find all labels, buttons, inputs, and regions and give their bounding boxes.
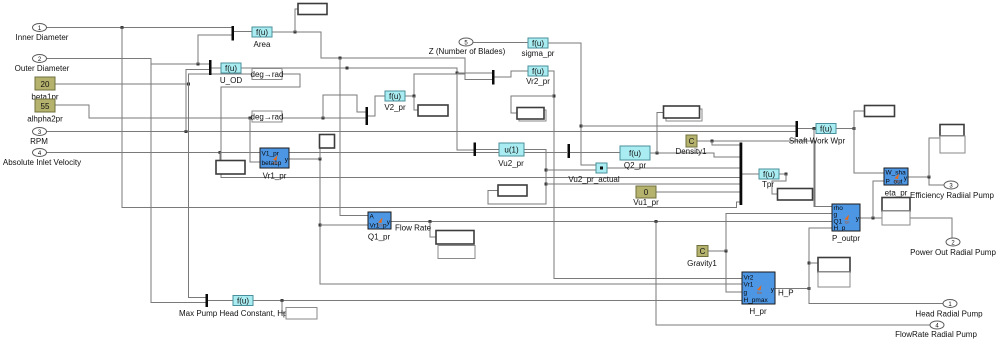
mux Vr2_pr inputs — [492, 70, 495, 85]
constant alhpha2pr 55 — [35, 99, 55, 112]
node: Vr1 junction to Q1 input — [319, 224, 322, 227]
wire: V2 mux output into V2_pr — [368, 96, 385, 116]
wire: Mux2 output into U_OD — [212, 67, 222, 69]
wire: Vu1_pr constant 0 output to Tpr mux — [656, 191, 740, 193]
svg-text:g: g — [744, 290, 748, 297]
svg-text:Vr2_pr: Vr2_pr — [526, 77, 550, 86]
svg-text:sigma_pr: sigma_pr — [522, 49, 555, 58]
constant Vu1_pr 0 — [636, 186, 656, 198]
display eta right top shadow — [940, 136, 965, 153]
display eta right top — [940, 125, 964, 137]
svg-text:f(u): f(u) — [820, 125, 832, 134]
mux V2_pr inputs — [366, 107, 369, 125]
wire: shaft display feed — [854, 111, 864, 129]
display Vr2_pr — [519, 110, 546, 121]
svg-text:f(u): f(u) — [389, 92, 401, 101]
svg-text:fcn: fcn — [845, 221, 850, 225]
inport 3 RPM — [33, 128, 47, 136]
svg-text:Gravity1: Gravity1 — [687, 259, 717, 268]
display eta below shadow — [882, 211, 910, 225]
fcn block Q2_pr — [620, 146, 650, 160]
mux Tpr inputs — [740, 143, 743, 206]
wire: gravity branch up to P_outpr g input — [726, 214, 832, 252]
wire: alhpha2pr constant 55 output into deg2rad2 — [55, 105, 366, 118]
fcn block u1 Vu2_pr — [499, 143, 524, 156]
node: Vu2 junction to product — [545, 169, 548, 172]
node: alpha rad junction at x250 — [249, 117, 252, 120]
svg-text:Vr1_pr: Vr1_pr — [263, 172, 287, 181]
svg-text:H_pr: H_pr — [749, 307, 767, 316]
constant Gravity1 C — [697, 246, 708, 257]
svg-text:fcn: fcn — [895, 180, 900, 184]
wire: Density branch into Tpr mux top — [712, 141, 740, 145]
svg-text:Inner Diameter: Inner Diameter — [16, 33, 69, 42]
wire: Shaft Work output — [836, 128, 854, 130]
wire: H_P branch up to P_outpr H_p input — [809, 228, 832, 289]
inport 2 Outer Diameter — [33, 55, 47, 63]
svg-text:RPM: RPM — [30, 137, 48, 146]
wire: Vr2 display feed loop — [511, 96, 554, 113]
wire: head display feed — [809, 262, 818, 264]
outport 4 FlowRate Radial Pump — [930, 321, 944, 329]
node: V2_pr output junction — [413, 95, 416, 98]
subsystem Vr1_pr — [260, 148, 289, 168]
svg-text:fcn: fcn — [757, 291, 762, 295]
node: Area display junction — [294, 31, 297, 34]
wire: Vr1 branch to Q1_pr Vr1 input — [320, 224, 368, 226]
svg-text:u(1): u(1) — [504, 146, 519, 155]
svg-text:U_OD: U_OD — [220, 76, 242, 85]
wire: Max Pump mux output into f(u) — [208, 300, 233, 302]
fcn block Vr2_pr — [528, 66, 548, 76]
wire: U_OD output line to Vr2 mux and Vu2 mux trunk — [241, 68, 474, 150]
mux Q2_pr inputs — [568, 144, 571, 158]
subsystem H_pr — [742, 272, 775, 304]
fcn block Max Pump Head Constant — [233, 296, 253, 306]
wire: u1 Vu2_pr output trunk — [488, 150, 546, 205]
wire: V1 display tap — [216, 153, 220, 168]
constant beta1pr 20 — [35, 77, 55, 90]
display Shaft Work — [865, 106, 895, 117]
svg-text:Vu2_pr: Vu2_pr — [498, 159, 524, 168]
wire: eta_pr output — [908, 177, 944, 185]
svg-text:Vr1: Vr1 — [744, 282, 754, 289]
display head shadow — [818, 272, 850, 287]
wire: Shaft mux output into Shaft Work f(u) — [798, 128, 816, 130]
svg-text:0: 0 — [644, 188, 649, 197]
fcn block Shaft Work Wpr — [816, 124, 836, 134]
svg-text:Q1_pr: Q1_pr — [368, 233, 391, 242]
svg-text:f(u): f(u) — [237, 297, 249, 306]
node: P_out junction to eta — [872, 217, 875, 220]
wire: Inner Diameter line to Mux1 — [47, 27, 232, 29]
svg-text:deg→rad: deg→rad — [251, 70, 284, 79]
node: Vr2 display junction — [553, 95, 556, 98]
display eta below — [882, 198, 910, 212]
svg-text:Power Out Radial Pump: Power Out Radial Pump — [910, 248, 996, 257]
svg-text:H_pmax: H_pmax — [744, 297, 769, 304]
display head — [818, 258, 850, 273]
wire: outer diameter branch up to Mux1 lower input — [198, 35, 232, 64]
product block Vu2_pr_actual — [596, 163, 607, 173]
svg-text:Head Radial Pump: Head Radial Pump — [915, 310, 983, 319]
node: Vu2 junction to Tpr mux — [545, 183, 548, 186]
wire: H_P branch down to Head outport — [809, 289, 943, 304]
svg-text:H_P: H_P — [778, 289, 794, 298]
svg-text:Z (Number of Blades): Z (Number of Blades) — [429, 47, 506, 56]
fcn block Area — [252, 27, 272, 37]
display Tpr — [778, 189, 813, 201]
mux Max Pump inputs — [206, 294, 209, 307]
wire: Q1 display feed — [430, 222, 436, 238]
node: deg2rad2 junction at x323 — [322, 117, 325, 120]
wire: sigma branch to Shaft mux top input — [581, 125, 796, 127]
svg-text:Vu1_pr: Vu1_pr — [633, 198, 659, 207]
svg-text:Area: Area — [254, 40, 271, 49]
wire: inner diameter trunk down to bus — [122, 28, 740, 208]
svg-text:f(u): f(u) — [225, 64, 237, 73]
display small above Vr1_pr output — [320, 135, 335, 149]
svg-text:Vr2: Vr2 — [744, 275, 754, 282]
gain deg2rad 1 — [252, 69, 282, 80]
fcn block U_OD — [221, 63, 241, 73]
outport 1 Head Radial Pump — [943, 300, 957, 308]
wire: H_pr output H_P — [774, 288, 809, 290]
node: Q1 flowrate junction — [655, 220, 658, 223]
wire: Tpr display feed — [772, 174, 786, 194]
wire: Gravity1 output trunk — [707, 251, 742, 292]
svg-text:FlowRate Radial Pump: FlowRate Radial Pump — [895, 330, 977, 339]
svg-text:g: g — [834, 212, 838, 219]
svg-text:alhpha2pr: alhpha2pr — [27, 115, 63, 124]
wire: beta trunk down to Max Pump mux upper input — [189, 84, 206, 298]
wire: Vr2 mux output into Vr2_pr — [495, 71, 529, 77]
svg-text:Shaft Work Wpr: Shaft Work Wpr — [789, 137, 846, 146]
wire: RPM line to Shaft mux — [47, 131, 796, 133]
display beta small left of Vr1_pr — [216, 161, 245, 175]
outport 2 Power Out Radial Pump — [946, 238, 960, 246]
node: gravity junction — [725, 250, 728, 253]
wire: deg2rad1 output return loop to long beta rad line — [221, 74, 740, 178]
wire: Q2 display feed — [657, 113, 663, 154]
fcn block Tpr — [759, 169, 779, 179]
svg-text:f(u): f(u) — [532, 39, 544, 48]
wire: Q1 branch down to FlowRate outport 4 — [656, 222, 930, 326]
wire: Mux1 output into Area — [234, 31, 252, 33]
wire: Vr1 small display stub — [319, 148, 321, 159]
svg-text:V2_pr: V2_pr — [384, 103, 406, 112]
node: Vr1 output junction to small display — [319, 158, 322, 161]
display Vu2_pr — [498, 185, 527, 196]
mux Shaft Work inputs — [796, 121, 799, 137]
mux Vu2_pr inputs — [474, 143, 477, 157]
outport 3 Efficiency Radial Pump — [944, 181, 958, 189]
constant Density1 C — [686, 135, 697, 147]
wire: Vu2 branch to product lower input — [546, 169, 596, 171]
wire: Vr2_pr output trunk down to H_pr Vr2 input — [548, 71, 742, 279]
node: shaft line junction to rho — [813, 127, 816, 130]
wire: sigma_pr output trunk — [548, 43, 596, 165]
wire: RPM branch up to U_OD mux lower input — [186, 70, 209, 132]
wire: branch up and over to V2 mux top input — [323, 95, 366, 118]
subsystem P_outpr — [832, 204, 860, 231]
wire: Density1 output — [697, 141, 832, 207]
display V2_pr — [418, 105, 448, 116]
svg-text:A: A — [370, 214, 375, 221]
wire: P_outpr output — [860, 218, 952, 242]
wire: Vu2 mux output into u1 — [476, 149, 500, 151]
wire: shaft branch down to eta W_sha input — [854, 129, 884, 174]
svg-text:H_p: H_p — [834, 225, 846, 232]
mux Area inputs — [232, 26, 235, 41]
node: Density junction — [711, 140, 714, 143]
node: shaft output junction — [853, 127, 856, 130]
inport 1 Inner Diameter — [33, 24, 47, 32]
node: Area line junction for Q1 A input — [339, 57, 342, 60]
node: U_OD junction for Vr2 mux — [456, 72, 459, 75]
wire: product output to Tpr mux — [607, 167, 740, 169]
subsystem eta_pr — [884, 168, 908, 185]
wire: outer diameter trunk down to Max Pump mux — [151, 59, 206, 303]
svg-text:beta1p: beta1p — [262, 160, 282, 167]
wire: V2 display feed — [414, 96, 418, 110]
wire: branch down to P_outpr rho input — [814, 129, 832, 207]
display Area top — [298, 4, 327, 15]
node: Q2 display junction — [656, 152, 659, 155]
display Q1 Flow Rate — [436, 231, 474, 245]
svg-text:deg→rad: deg→rad — [251, 113, 284, 122]
wire: Vr1_pr output trunk — [289, 159, 742, 284]
fcn block V2_pr — [385, 91, 405, 101]
svg-text:Tpr: Tpr — [762, 180, 774, 189]
inport 4 Absolute Inlet Velocity — [33, 149, 47, 157]
svg-text:P_outpr: P_outpr — [832, 234, 860, 243]
svg-text:f(u): f(u) — [629, 149, 641, 158]
display Q1 shadow lower — [438, 246, 475, 259]
wire: H_pmax display feed — [282, 301, 286, 314]
node: H_pmax display junction — [281, 299, 284, 302]
node: head display junction — [808, 262, 811, 265]
subsystem Q1_pr Flow Rate — [368, 212, 391, 229]
mux U_OD inputs — [209, 60, 212, 75]
svg-text:Q2_pr: Q2_pr — [624, 161, 647, 170]
wire: Q2 mux output into Q2_pr — [570, 152, 620, 154]
svg-text:Efficiency Radiial Pump: Efficiency Radiial Pump — [910, 191, 994, 200]
wire: Z port5 line into sigma_pr — [473, 42, 528, 44]
node: V1 junction at display tap — [219, 151, 222, 154]
svg-text:f(u): f(u) — [532, 67, 544, 76]
svg-text:fcn: fcn — [378, 224, 383, 228]
wire: beta branch up into deg2rad1 — [189, 74, 253, 84]
fcn block sigma_pr — [528, 38, 548, 48]
wire: alpha rad branch down to Vr1_pr beta1p input — [250, 118, 260, 162]
wire: Tpr mux output into Tpr — [742, 173, 759, 175]
svg-text:Vu2_pr_actual: Vu2_pr_actual — [568, 175, 620, 184]
wire: Tpr output — [779, 173, 786, 175]
svg-text:Flow Rate: Flow Rate — [395, 224, 432, 233]
svg-text:20: 20 — [41, 80, 50, 89]
wire: Max Pump Head output H_pmax line — [253, 300, 742, 302]
wire: Vu2 branch to Tpr mux input — [546, 183, 740, 185]
wire: beta1pr constant 20 output — [55, 83, 189, 85]
node: Tpr output junction — [785, 173, 788, 176]
display Max Pump Head — [286, 308, 317, 320]
wire: Q2_pr output to Tpr mux — [650, 153, 740, 157]
svg-text:f(u): f(u) — [256, 28, 268, 37]
node: eta display junction — [928, 176, 931, 179]
wire: branch down to Q1_pr A input — [340, 58, 368, 216]
svg-text:f(u): f(u) — [763, 170, 775, 179]
svg-text:C: C — [689, 137, 695, 146]
svg-text:eta_pr: eta_pr — [885, 189, 908, 198]
wire: Q1_pr output line to P_outpr Q1 input — [391, 221, 832, 223]
node: outer diameter junction at x198 — [197, 63, 200, 66]
wire: Area output line — [272, 32, 492, 80]
wire: Outer Diameter line — [47, 59, 210, 65]
wire: eta display feed — [929, 138, 940, 177]
node: beta junction — [187, 83, 190, 86]
wire: Absolute Inlet Velocity line to Vr1_pr and Vu2 mux — [47, 152, 568, 154]
display Q2 above Density1 — [666, 109, 702, 121]
node: Q1 display junction — [429, 220, 432, 223]
node: inner diameter junction — [121, 26, 124, 29]
node: H_P junction — [808, 287, 811, 290]
wire: Area display feed — [295, 9, 298, 32]
svg-text:fcn: fcn — [273, 161, 278, 165]
svg-text:Outer Diameter: Outer Diameter — [15, 64, 70, 73]
wire: branch up to eta P_out input — [873, 181, 884, 218]
inport 5 Z Number of Blades — [459, 38, 473, 46]
wire: V2_pr output — [405, 74, 465, 96]
svg-text:55: 55 — [41, 102, 50, 111]
node: sigma junction for shaft mux — [580, 125, 583, 128]
node: U_OD junction at x347 — [346, 67, 349, 70]
wire: branch to Vr2 mux top input — [457, 72, 492, 74]
svg-text:C: C — [700, 247, 706, 256]
node: RPM junction for U_OD mux — [185, 130, 188, 133]
gain deg2rad 2 — [252, 111, 282, 122]
svg-text:Absolute Inlet Velocity: Absolute Inlet Velocity — [3, 158, 81, 167]
svg-text:Max Pump Head Constant, Hp: Max Pump Head Constant, Hp — [179, 309, 288, 318]
svg-text:Density1: Density1 — [675, 147, 707, 156]
